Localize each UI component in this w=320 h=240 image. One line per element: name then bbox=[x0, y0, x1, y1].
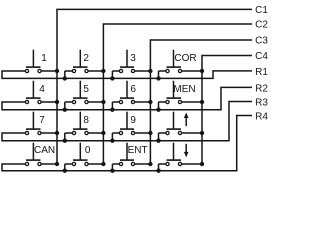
junction bus R1 jog cell 4 bbox=[156, 76, 160, 80]
pushbutton switch S22 "5" bbox=[72, 81, 88, 104]
junction column C4 / switch row 1 bbox=[200, 69, 204, 73]
junction column C1 / switch row 2 bbox=[55, 100, 59, 104]
junction column C4 / switch row 2 bbox=[200, 100, 204, 104]
pushbutton switch S42 "0" bbox=[72, 143, 88, 166]
svg-text:7: 7 bbox=[39, 115, 45, 126]
svg-text:C1: C1 bbox=[255, 5, 268, 16]
wire jog row 2 cell 2 (bus to contact line) bbox=[64, 102, 66, 110]
junction bus R4 jog cell 2 bbox=[63, 169, 67, 173]
pushbutton switch S12 "2" bbox=[72, 50, 88, 73]
svg-text:C2: C2 bbox=[255, 20, 268, 31]
wire column C3 net (vertical + run to label) bbox=[150, 40, 252, 164]
svg-text:3: 3 bbox=[130, 53, 136, 64]
svg-text:R4: R4 bbox=[255, 111, 268, 122]
junction bus R3 jog cell 3 bbox=[110, 139, 114, 143]
wire row R3 net: left hook, bus, step up to label bbox=[2, 102, 252, 141]
junction column C2 / switch row 3 bbox=[101, 131, 105, 135]
pushbutton switch S41 "CAN" bbox=[25, 143, 41, 166]
junction column C3 / switch row 4 bbox=[148, 162, 152, 166]
wire row 3 contact-line segments bbox=[41, 132, 202, 134]
junction column C4 / switch row 4 bbox=[200, 162, 204, 166]
svg-text:CAN: CAN bbox=[34, 145, 55, 156]
wire column C1 net (vertical + run to label) bbox=[57, 9, 252, 164]
junction bus R4 jog cell 4 bbox=[156, 169, 160, 173]
wire row R2 net: left hook, bus, step up to label bbox=[2, 87, 252, 109]
junction bus R4 jog cell 3 bbox=[110, 169, 114, 173]
pushbutton switch S32 "8" bbox=[72, 112, 88, 135]
wire jog row 4 cell 2 (bus to contact line) bbox=[64, 164, 66, 171]
wire jog row 4 cell 3 (bus to contact line) bbox=[111, 164, 113, 171]
junction column C4 / switch row 3 bbox=[200, 131, 204, 135]
svg-text:0: 0 bbox=[85, 145, 91, 156]
svg-text:5: 5 bbox=[83, 84, 89, 95]
wire jog row 3 cell 3 (bus to contact line) bbox=[111, 133, 113, 141]
svg-text:R1: R1 bbox=[255, 67, 268, 78]
junction bus R1 jog cell 3 bbox=[110, 76, 114, 80]
junction column C2 / switch row 2 bbox=[101, 100, 105, 104]
pushbutton switch S43 "ENT" bbox=[119, 143, 134, 166]
pushbutton switch S33 "9" bbox=[119, 112, 134, 135]
wire row 2 contact-line segments bbox=[41, 101, 202, 103]
svg-text:2: 2 bbox=[83, 53, 89, 64]
wire jog row 3 cell 4 (bus to contact line) bbox=[158, 133, 160, 141]
junction column C3 / switch row 2 bbox=[148, 100, 152, 104]
pushbutton switch S44 "DOWN" bbox=[166, 143, 182, 166]
pushbutton switch S21 "4" bbox=[25, 81, 41, 104]
svg-text:6: 6 bbox=[130, 84, 136, 95]
wire jog row 1 cell 4 (bus to contact line) bbox=[158, 71, 160, 78]
svg-text:R2: R2 bbox=[255, 83, 268, 94]
junction bus R2 jog cell 2 bbox=[63, 108, 67, 112]
wire column C4 net (vertical + run to label) bbox=[202, 56, 252, 165]
junction column C2 / switch row 1 bbox=[101, 69, 105, 73]
svg-text:1: 1 bbox=[41, 53, 47, 64]
junction bus R1 jog cell 2 bbox=[63, 76, 67, 80]
junction bus R2 jog cell 3 bbox=[110, 108, 114, 112]
wire jog row 4 cell 4 (bus to contact line) bbox=[158, 164, 160, 171]
label arrow down (switch S44) bbox=[184, 144, 189, 158]
svg-text:C3: C3 bbox=[255, 36, 268, 47]
pushbutton switch S24 "MEN" bbox=[166, 81, 182, 104]
wire jog row 1 cell 2 (bus to contact line) bbox=[64, 71, 66, 78]
svg-text:C4: C4 bbox=[255, 51, 268, 62]
junction column C1 / switch row 1 bbox=[55, 69, 59, 73]
svg-text:COR: COR bbox=[174, 53, 196, 64]
svg-text:9: 9 bbox=[130, 115, 136, 126]
junction bus R3 jog cell 2 bbox=[63, 139, 67, 143]
svg-text:8: 8 bbox=[83, 115, 89, 126]
junction bus R3 jog cell 4 bbox=[156, 139, 160, 143]
wire jog row 3 cell 2 (bus to contact line) bbox=[64, 133, 66, 141]
wire row R4 net: left hook, bus, step up to label bbox=[2, 116, 252, 171]
wire jog row 2 cell 4 (bus to contact line) bbox=[158, 102, 160, 110]
svg-text:ENT: ENT bbox=[128, 145, 148, 156]
svg-text:4: 4 bbox=[39, 84, 45, 95]
label arrow up (switch S34) bbox=[184, 112, 189, 126]
pushbutton switch S11 "1" bbox=[25, 50, 41, 73]
pushbutton switch S23 "6" bbox=[119, 81, 134, 104]
wire jog row 1 cell 3 (bus to contact line) bbox=[111, 71, 113, 78]
pushbutton switch S13 "3" bbox=[119, 50, 134, 73]
wire row 4 contact-line segments bbox=[41, 163, 202, 165]
junction column C3 / switch row 3 bbox=[148, 131, 152, 135]
junction column C1 / switch row 3 bbox=[55, 131, 59, 135]
svg-text:MEN: MEN bbox=[173, 84, 195, 95]
pushbutton switch S34 "UP" bbox=[166, 112, 182, 135]
wire column C2 net (vertical + run to label) bbox=[103, 24, 252, 164]
junction bus R2 jog cell 4 bbox=[156, 108, 160, 112]
pushbutton switch S14 "COR" bbox=[166, 50, 182, 73]
junction column C1 / switch row 4 bbox=[55, 162, 59, 166]
pushbutton switch S31 "7" bbox=[25, 112, 41, 135]
wire row 1 contact-line segments bbox=[41, 70, 202, 72]
junction column C2 / switch row 4 bbox=[101, 162, 105, 166]
wire row R1 net: left hook, bus, step up to label bbox=[2, 71, 252, 79]
svg-text:R3: R3 bbox=[255, 97, 268, 108]
junction column C3 / switch row 1 bbox=[148, 69, 152, 73]
wire jog row 2 cell 3 (bus to contact line) bbox=[111, 102, 113, 110]
